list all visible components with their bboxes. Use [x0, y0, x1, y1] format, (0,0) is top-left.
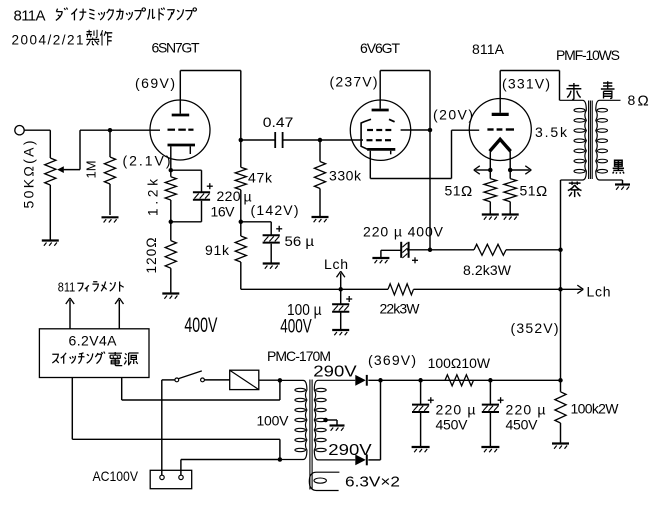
svg-text:(369V): (369V) — [368, 352, 416, 368]
svg-text:22k3W: 22k3W — [380, 301, 421, 317]
svg-text:8.2k3W: 8.2k3W — [463, 262, 512, 278]
svg-text:Ω: Ω — [638, 93, 649, 110]
svg-text:1.2k: 1.2k — [146, 179, 161, 216]
svg-text:(2.1V): (2.1V) — [123, 153, 171, 169]
svg-text:220 µ: 220 µ — [436, 402, 476, 418]
svg-text:8: 8 — [628, 92, 636, 108]
svg-text:50KΩ(A): 50KΩ(A) — [21, 141, 37, 209]
svg-text:2004/2/21: 2004/2/21 — [12, 33, 84, 48]
svg-text:51: 51 — [445, 183, 461, 199]
svg-text:Ω: Ω — [536, 183, 547, 200]
svg-text:Ω: Ω — [461, 183, 472, 200]
svg-text:6SN7GT: 6SN7GT — [152, 40, 200, 56]
svg-text:6.2V4A: 6.2V4A — [69, 332, 118, 348]
svg-text:91k: 91k — [205, 242, 230, 258]
svg-text:290V: 290V — [313, 364, 357, 381]
svg-text:400V: 400V — [184, 314, 217, 337]
svg-text:0.47: 0.47 — [263, 114, 294, 130]
svg-text:100Ω10W: 100Ω10W — [428, 355, 491, 371]
svg-text:56 µ: 56 µ — [285, 233, 315, 249]
svg-text:811: 811 — [58, 279, 76, 294]
svg-text:6.3V×2: 6.3V×2 — [345, 474, 400, 491]
svg-text:811A: 811A — [472, 41, 505, 57]
svg-text:450V: 450V — [436, 417, 469, 433]
svg-text:16V: 16V — [211, 204, 236, 220]
svg-text:47k: 47k — [248, 170, 273, 186]
svg-text:330k: 330k — [329, 168, 362, 184]
svg-text:Lch: Lch — [324, 256, 348, 272]
svg-text:(142V): (142V) — [251, 202, 299, 218]
svg-text:220: 220 — [217, 188, 241, 204]
svg-text:PMC-170M: PMC-170M — [267, 348, 331, 364]
svg-text:400V: 400V — [280, 316, 312, 337]
svg-text:(352V): (352V) — [511, 320, 559, 336]
svg-text:220 µ 400V: 220 µ 400V — [363, 224, 444, 240]
svg-text:450V: 450V — [506, 417, 539, 433]
svg-text:6V6GT: 6V6GT — [360, 40, 400, 56]
svg-text:AC100V: AC100V — [93, 468, 139, 484]
svg-text:3.5k: 3.5k — [535, 124, 568, 140]
svg-text:100V: 100V — [257, 413, 290, 429]
svg-text:290V: 290V — [328, 442, 372, 459]
svg-text:Lch: Lch — [587, 284, 611, 300]
svg-text:1M: 1M — [84, 160, 99, 178]
svg-text:811A: 811A — [14, 8, 46, 25]
svg-text:100k2W: 100k2W — [571, 401, 620, 417]
svg-text:PMF-10WS: PMF-10WS — [556, 47, 620, 63]
svg-text:51: 51 — [520, 183, 536, 199]
svg-text:120Ω: 120Ω — [144, 238, 159, 274]
svg-text:(331V): (331V) — [502, 76, 550, 92]
svg-text:(237V): (237V) — [330, 74, 378, 90]
svg-text:220 µ: 220 µ — [506, 402, 546, 418]
